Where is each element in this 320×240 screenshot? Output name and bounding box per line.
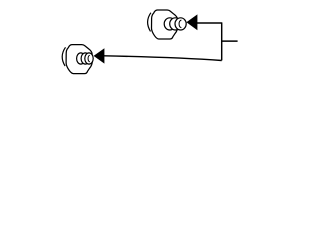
bolt B2 ring 2: [81, 53, 89, 64]
bolt B1 ring 2: [170, 18, 181, 30]
bolt B1 head: [148, 10, 178, 39]
bolt B1 ring 1: [164, 18, 175, 30]
wire: right tick: [222, 40, 238, 42]
arrow A2 (points left at bottom bolt): [94, 48, 105, 63]
bolt B2 shank end face: [88, 55, 90, 62]
wire: vertical connector: [221, 22, 223, 60]
bolt B2 ring 3: [85, 53, 93, 64]
wire: bottom arrow tail (slightly sloped): [104, 56, 222, 61]
wire: top arrow tail: [197, 22, 222, 24]
arrow A1 (points left at top bolt): [186, 14, 197, 30]
bolt B2 ring 1: [77, 53, 85, 64]
bolt B1 shank end face: [179, 20, 181, 28]
bolt B2 head: [62, 45, 92, 74]
bolt B1 ring 3: [175, 18, 186, 30]
